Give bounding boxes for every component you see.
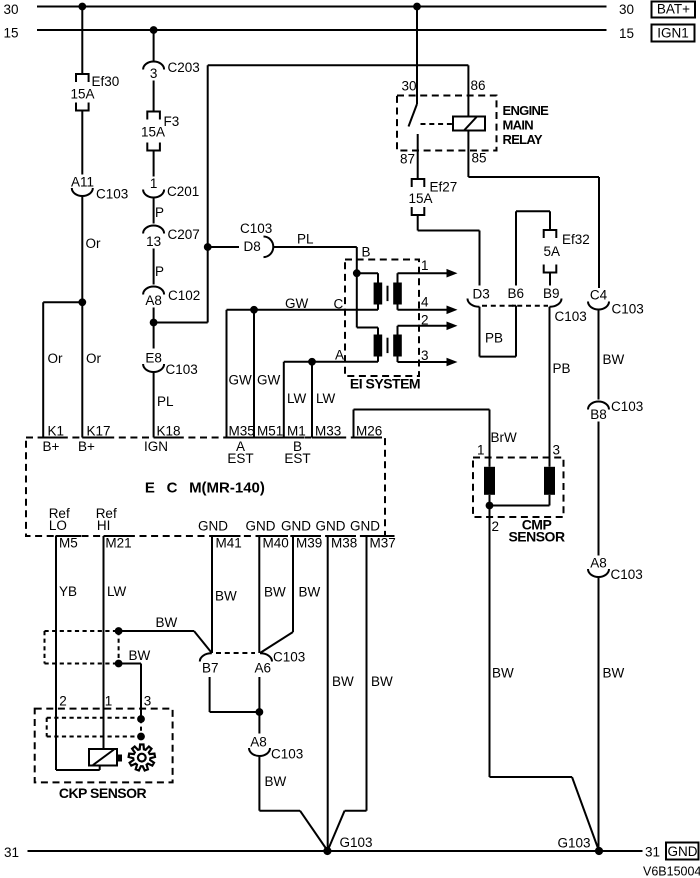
svg-text:C102: C102 (168, 288, 200, 303)
svg-text:RELAY: RELAY (503, 132, 543, 147)
svg-text:C103: C103 (273, 650, 305, 665)
svg-text:BW: BW (332, 674, 354, 689)
svg-text:87: 87 (400, 152, 415, 167)
svg-text:MAIN: MAIN (503, 118, 534, 133)
svg-text:5A: 5A (544, 244, 561, 259)
svg-text:B6: B6 (508, 286, 525, 301)
svg-text:C103: C103 (611, 399, 643, 414)
svg-text:A8: A8 (145, 293, 162, 308)
svg-text:HI: HI (97, 518, 111, 533)
svg-text:13: 13 (146, 234, 161, 249)
svg-text:IGN1: IGN1 (657, 26, 689, 41)
svg-text:Or: Or (48, 351, 64, 366)
svg-text:M41: M41 (216, 536, 242, 551)
svg-text:YB: YB (59, 584, 77, 599)
svg-text:SENSOR: SENSOR (508, 529, 565, 545)
svg-text:31: 31 (4, 845, 19, 860)
svg-text:A: A (335, 348, 344, 363)
svg-text:C: C (334, 297, 344, 312)
svg-text:3: 3 (553, 443, 561, 458)
svg-text:BW: BW (265, 774, 287, 789)
svg-text:PL: PL (157, 394, 174, 409)
svg-text:ENGINE: ENGINE (503, 103, 550, 118)
svg-text:M26: M26 (356, 424, 382, 439)
svg-text:1: 1 (105, 694, 113, 709)
svg-text:31: 31 (645, 845, 660, 860)
svg-text:C103: C103 (612, 302, 644, 317)
svg-text:3: 3 (150, 66, 158, 81)
svg-text:C207: C207 (168, 227, 200, 242)
svg-text:Or: Or (86, 236, 102, 251)
svg-text:EI SYSTEM: EI SYSTEM (350, 376, 420, 392)
svg-text:B+: B+ (43, 439, 60, 454)
svg-text:M33: M33 (315, 424, 341, 439)
svg-text:P: P (155, 205, 164, 220)
svg-text:BW: BW (603, 666, 625, 681)
svg-text:4: 4 (421, 295, 429, 310)
svg-text:M5: M5 (59, 536, 78, 551)
svg-text:30: 30 (619, 2, 634, 17)
svg-text:M35: M35 (229, 424, 255, 439)
svg-text:C4: C4 (590, 288, 608, 303)
svg-text:F3: F3 (164, 114, 180, 129)
svg-text:BW: BW (603, 352, 625, 367)
svg-text:K18: K18 (157, 424, 181, 439)
svg-text:BrW: BrW (491, 430, 518, 445)
svg-text:B8: B8 (590, 407, 607, 422)
svg-text:Ef27: Ef27 (430, 180, 458, 195)
svg-text:P: P (155, 264, 164, 279)
svg-text:C103: C103 (611, 567, 643, 582)
svg-text:E8: E8 (145, 351, 162, 366)
svg-text:B+: B+ (78, 439, 95, 454)
svg-text:15A: 15A (71, 87, 95, 102)
svg-text:EST: EST (227, 451, 253, 466)
svg-text:C103: C103 (271, 747, 303, 762)
svg-text:LW: LW (287, 391, 307, 406)
svg-text:15: 15 (619, 26, 634, 41)
svg-text:30: 30 (4, 2, 19, 17)
svg-text:GW: GW (257, 373, 281, 388)
svg-text:BW: BW (492, 666, 514, 681)
svg-text:G103: G103 (558, 836, 591, 851)
svg-text:C103: C103 (166, 362, 198, 377)
svg-text:BW: BW (299, 585, 321, 600)
svg-text:K17: K17 (87, 424, 111, 439)
svg-text:C203: C203 (168, 60, 200, 75)
svg-text:M51: M51 (257, 424, 283, 439)
svg-text:GW: GW (229, 373, 253, 388)
svg-text:B7: B7 (202, 661, 219, 676)
svg-text:V6B15004: V6B15004 (643, 865, 700, 878)
svg-text:GND: GND (350, 519, 380, 534)
svg-text:86: 86 (471, 78, 486, 93)
svg-text:BW: BW (371, 674, 393, 689)
svg-text:3: 3 (421, 348, 429, 363)
svg-text:BW: BW (156, 615, 178, 630)
svg-text:15A: 15A (409, 191, 433, 206)
svg-text:D8: D8 (244, 239, 261, 254)
svg-text:GND: GND (316, 519, 346, 534)
svg-text:LW: LW (107, 584, 127, 599)
svg-text:BW: BW (215, 589, 237, 604)
svg-text:PB: PB (553, 361, 571, 376)
svg-text:M40: M40 (263, 536, 289, 551)
svg-text:Ef32: Ef32 (562, 232, 590, 247)
svg-text:M21: M21 (105, 536, 131, 551)
svg-text:15: 15 (4, 26, 19, 41)
svg-text:2: 2 (492, 519, 500, 534)
svg-text:IGN: IGN (144, 439, 168, 454)
svg-text:CKP SENSOR: CKP SENSOR (59, 785, 147, 801)
svg-text:GND: GND (246, 519, 276, 534)
svg-text:C103: C103 (555, 309, 587, 324)
svg-text:LO: LO (49, 518, 67, 533)
svg-text:A6: A6 (255, 661, 272, 676)
svg-text:30: 30 (402, 79, 417, 94)
svg-text:BAT+: BAT+ (657, 2, 690, 17)
svg-text:C103: C103 (96, 187, 128, 202)
svg-text:M38: M38 (331, 536, 357, 551)
svg-text:GND: GND (668, 844, 698, 859)
svg-text:E C M(MR-140): E C M(MR-140) (145, 480, 265, 497)
svg-text:K1: K1 (48, 424, 65, 439)
svg-text:BW: BW (264, 585, 286, 600)
svg-text:GND: GND (281, 519, 311, 534)
svg-text:M37: M37 (370, 536, 396, 551)
svg-text:EST: EST (284, 451, 310, 466)
svg-text:15A: 15A (141, 125, 165, 140)
svg-text:C103: C103 (240, 221, 272, 236)
svg-text:B9: B9 (543, 286, 560, 301)
svg-text:D3: D3 (473, 287, 490, 302)
svg-text:PB: PB (485, 331, 503, 346)
svg-text:85: 85 (472, 151, 487, 166)
svg-text:A8: A8 (590, 556, 607, 571)
svg-text:1: 1 (421, 258, 429, 273)
svg-text:Ef30: Ef30 (92, 74, 120, 89)
svg-text:M39: M39 (296, 536, 322, 551)
svg-text:LW: LW (316, 391, 336, 406)
svg-text:G103: G103 (340, 835, 373, 850)
svg-text:Or: Or (86, 351, 102, 366)
svg-text:B: B (362, 245, 371, 260)
svg-text:3: 3 (144, 694, 152, 709)
svg-text:2: 2 (421, 313, 429, 328)
svg-text:C201: C201 (167, 184, 199, 199)
svg-text:1: 1 (477, 443, 485, 458)
svg-text:BW: BW (129, 648, 151, 663)
svg-text:M1: M1 (287, 424, 306, 439)
svg-text:1: 1 (150, 176, 158, 191)
svg-text:A8: A8 (250, 735, 267, 750)
svg-text:A11: A11 (71, 175, 94, 190)
svg-text:2: 2 (59, 694, 67, 709)
svg-text:PL: PL (297, 232, 314, 247)
svg-text:GND: GND (198, 519, 228, 534)
svg-text:GW: GW (285, 296, 309, 311)
